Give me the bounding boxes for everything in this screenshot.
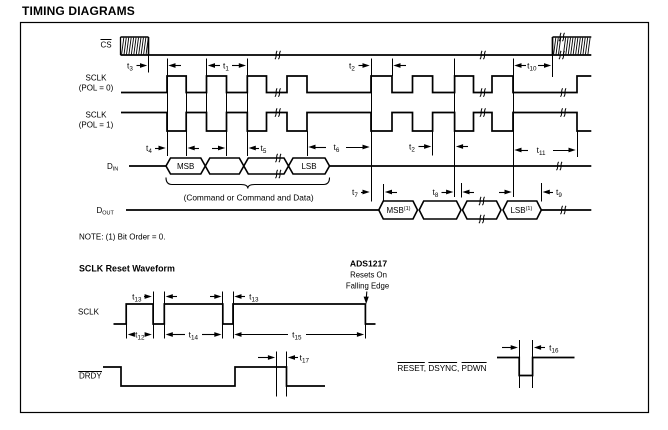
ref line x392 top	[392, 59, 394, 77]
ref line x577	[577, 131, 579, 157]
arrow right at x226.5	[212, 146, 225, 151]
svg-text:(POL = 1): (POL = 1)	[79, 121, 114, 130]
svg-text:t11: t11	[537, 145, 546, 157]
dim line x276.4	[276, 352, 278, 397]
wire DIN baseline right	[330, 165, 592, 167]
break SCLK1 b	[480, 108, 486, 116]
svg-text:t12: t12	[135, 330, 145, 342]
break DOUT cell3 bottom	[479, 215, 485, 223]
ref line x432.6	[432, 131, 434, 156]
wire DIN baseline left	[129, 165, 166, 167]
arrow left at x541.3 and t9 label	[543, 187, 563, 199]
arrow left at x164	[166, 294, 177, 299]
svg-text:MSB: MSB	[177, 162, 194, 171]
svg-text:LSB: LSB	[301, 162, 316, 171]
break DOUT baseline	[560, 206, 566, 214]
break SCLK0 a	[275, 88, 281, 96]
t11 span left arrow	[514, 148, 528, 153]
signal label SCLK (POL=0)	[79, 74, 114, 93]
t17 left arrow and label	[288, 353, 310, 365]
DIN cell 3	[244, 158, 289, 174]
t2 label and arrow (top)	[349, 61, 370, 73]
svg-text:DRDY: DRDY	[79, 371, 102, 380]
svg-text:CS: CS	[101, 41, 112, 50]
caption (Command or Command and Data)	[184, 193, 314, 203]
svg-text:t13: t13	[249, 292, 259, 304]
label ADS1217	[350, 259, 387, 269]
signal label SCLK (reset)	[78, 308, 100, 317]
ref line x167	[167, 59, 169, 157]
svg-text:t3: t3	[127, 61, 133, 73]
falling edge pointer arrow	[364, 292, 369, 305]
svg-text:t2: t2	[349, 61, 355, 73]
ref line DOUT msb left x383.5	[383, 184, 385, 202]
t6 span right arrow	[346, 145, 370, 150]
svg-text:(POL = 0): (POL = 0)	[79, 84, 114, 93]
break SCLK1 a	[275, 108, 281, 116]
dim line x286.5	[286, 352, 288, 397]
t14 span	[166, 330, 222, 342]
wire DOUT baseline left	[126, 209, 379, 211]
svg-text:DOUT: DOUT	[97, 206, 115, 217]
arrow right at x223	[210, 294, 222, 299]
t6 label	[334, 142, 340, 154]
svg-text:t13: t13	[132, 292, 142, 304]
svg-text:(Command or Command and Data): (Command or Command and Data)	[184, 193, 314, 203]
waveform SCLK POL=1	[121, 113, 591, 132]
ref line x186	[186, 76, 188, 156]
dim line x126	[126, 304, 128, 339]
break on CS line left	[275, 51, 281, 59]
svg-text:NOTE: (1) Bit Order = 0.: NOTE: (1) Bit Order = 0.	[79, 233, 165, 242]
svg-text:RESET, DSYNC, PDWN: RESET, DSYNC, PDWN	[397, 364, 486, 373]
svg-text:t16: t16	[549, 343, 559, 355]
svg-text:LSB(1): LSB(1)	[510, 206, 532, 215]
ref line x226.5	[226, 76, 228, 156]
svg-text:t4: t4	[146, 143, 152, 155]
signal label SCLK (POL=1)	[79, 111, 114, 130]
svg-text:t9: t9	[556, 187, 562, 199]
break SCLK0 c	[560, 88, 566, 96]
ref line x307	[307, 131, 309, 156]
dim line x233	[233, 292, 235, 339]
signal label DIN	[107, 162, 118, 173]
svg-text:t8: t8	[433, 187, 439, 199]
svg-text:TIMING DIAGRAMS: TIMING DIAGRAMS	[22, 4, 135, 18]
t13 label and arrow (left)	[132, 292, 152, 304]
dim line x519	[519, 340, 521, 388]
svg-text:t2: t2	[409, 142, 415, 154]
ref line x371	[371, 59, 373, 202]
DOUT cell 3	[463, 201, 502, 219]
wire DOUT baseline right	[541, 209, 591, 211]
t17 arrow right	[258, 355, 275, 360]
t16 left arrow and label	[534, 343, 559, 355]
figure title	[22, 4, 135, 18]
ref line x454.6	[454, 59, 456, 198]
t1 right arrow	[232, 63, 246, 68]
svg-text:t7: t7	[352, 187, 358, 199]
DOUT cell 2	[419, 201, 461, 219]
break SCLK1 c	[560, 108, 566, 116]
waveform SCLK POL=0	[121, 76, 591, 93]
DIN cell 2	[205, 158, 244, 174]
signal label DRDY (overlined)	[78, 371, 102, 380]
dim line x164	[164, 292, 166, 339]
t16 arrow right	[502, 345, 518, 350]
t2 label and arrow (row2)	[409, 142, 431, 154]
svg-text:t10: t10	[527, 61, 537, 73]
svg-text:Resets On: Resets On	[350, 271, 387, 280]
CS falling edge	[148, 37, 150, 55]
label Resets On	[350, 271, 387, 280]
svg-text:SCLK: SCLK	[86, 111, 108, 120]
DOUT cell LSB(1)	[503, 201, 541, 219]
t6 span left arrow	[308, 145, 326, 150]
wire CS baseline	[121, 54, 592, 56]
ref line DOUT lsb right x541.3	[541, 183, 543, 202]
arrow left at x167	[168, 63, 181, 68]
break DIN cell3 top	[275, 154, 281, 162]
heading SCLK Reset Waveform	[79, 264, 175, 274]
ref line x206.5	[206, 59, 208, 132]
svg-text:t6: t6	[334, 142, 340, 154]
t10 label	[527, 61, 537, 73]
DIN cell LSB	[289, 158, 330, 174]
waveform DRDY	[103, 367, 325, 386]
arrow left at x206.5	[208, 63, 220, 68]
svg-text:SCLK Reset Waveform: SCLK Reset Waveform	[79, 264, 175, 274]
svg-text:MSB(1): MSB(1)	[386, 206, 410, 215]
break DIN baseline	[556, 162, 562, 170]
label Falling Edge	[346, 281, 389, 290]
arrow right at x513	[499, 190, 512, 195]
break DOUT cell3 top	[479, 197, 485, 205]
DOUT cell MSB(1)	[379, 201, 418, 219]
t10 left arrow	[514, 63, 526, 68]
t4 label and arrow	[146, 143, 166, 155]
t11 span right arrow	[553, 148, 576, 153]
brace under DIN cells	[166, 178, 330, 189]
break on CS right hatch top	[559, 33, 565, 41]
t8 label and arrow	[433, 187, 454, 199]
svg-text:t15: t15	[292, 330, 302, 342]
dim line x223	[222, 292, 224, 339]
break DIN cell3 bottom	[275, 170, 281, 178]
signal label CS (overlined)	[101, 40, 112, 50]
svg-text:SCLK: SCLK	[86, 74, 108, 83]
signal label RESET DSYNC PDWN (overlined)	[397, 363, 486, 374]
ref line DOUT cell2 right x461	[461, 183, 463, 198]
svg-text:t14: t14	[189, 330, 199, 342]
ref line at CS fall x148.5	[148, 55, 150, 73]
arrow left at x233 and t13 label (right)	[234, 292, 259, 304]
t3 label and arrow	[127, 61, 147, 73]
arrow left at x454.6	[456, 144, 468, 149]
CS hatch block right	[553, 37, 592, 55]
t1 label	[223, 61, 229, 73]
ref line at CS rise x552.5	[552, 55, 554, 77]
CS hatch block left	[121, 37, 149, 55]
svg-text:ADS1217: ADS1217	[350, 259, 387, 269]
cut slit through right hatch	[559, 38, 564, 54]
arrow left at x247 and t5 label	[249, 143, 267, 155]
break on CS line right	[480, 51, 486, 59]
t12 span	[128, 330, 152, 342]
svg-text:t1: t1	[223, 61, 229, 73]
signal label DOUT	[97, 206, 115, 217]
ref line x513	[513, 59, 515, 198]
arrow left at x461	[462, 190, 474, 195]
DIN cell MSB	[166, 158, 205, 174]
t7 label and arrow	[352, 187, 370, 199]
arrow left at x186	[188, 146, 200, 151]
arrow left at x392	[393, 63, 406, 68]
svg-text:t5: t5	[261, 143, 267, 155]
svg-text:Falling Edge: Falling Edge	[346, 281, 389, 290]
t10 right arrow	[538, 63, 551, 68]
ref line x247	[247, 59, 249, 157]
dim line x153	[153, 292, 155, 339]
dim line x533	[532, 340, 534, 388]
arrow left at x383.5	[385, 190, 397, 195]
waveform RESET DSYNC PDWN	[497, 358, 575, 376]
break SCLK0 b	[480, 88, 486, 96]
t15 span	[234, 330, 364, 342]
svg-text:DIN: DIN	[107, 162, 118, 173]
svg-text:t17: t17	[300, 353, 310, 365]
break on CS right hatch bottom	[559, 51, 565, 59]
CS rising edge	[552, 37, 554, 55]
t11 label	[537, 145, 546, 157]
dim line x365	[365, 304, 367, 339]
svg-text:SCLK: SCLK	[78, 308, 100, 317]
waveform SCLK reset	[114, 304, 376, 324]
note text	[79, 233, 165, 242]
